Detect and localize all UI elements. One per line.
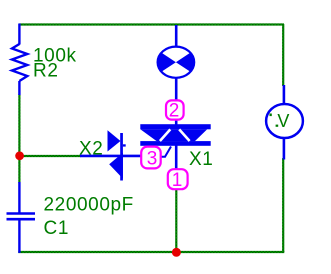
triac white slit left	[160, 129, 170, 141]
wire branch to X2 (node A)	[19, 155, 81, 157]
svg-text:1: 1	[172, 170, 183, 191]
pin 3 box	[141, 147, 161, 169]
wire triac pin1 to bottom	[175, 189, 177, 252]
wire top	[19, 23, 284, 25]
svg-text:3: 3	[147, 149, 158, 170]
diac X2 bar	[120, 133, 123, 181]
triac X1 body	[140, 124, 210, 146]
svg-text:V: V	[277, 111, 289, 131]
svg-text:X1: X1	[189, 149, 213, 170]
wire right upper	[282, 24, 284, 86]
lamp body	[158, 47, 195, 78]
svg-text:2: 2	[169, 100, 180, 121]
lamp: top lead	[175, 25, 178, 47]
svg-text:C1: C1	[44, 218, 70, 239]
voltmeter bottom lead	[283, 136, 286, 160]
wire bottom	[18, 251, 284, 253]
triac gate wire	[159, 147, 171, 157]
lamp right sector	[176, 53, 194, 72]
resistor R2	[12, 24, 27, 96]
svg-text:X2: X2	[79, 139, 103, 160]
pin 2 box	[166, 100, 184, 119]
voltmeter top lead	[283, 85, 286, 106]
voltmeter body	[266, 104, 303, 138]
diac X2 top triangle	[108, 130, 121, 151]
triac X1 top lead from pin2	[175, 120, 178, 125]
triac X1 bottom lead to pin1	[175, 146, 178, 170]
pin 1 box	[168, 169, 188, 189]
junction dot left	[15, 151, 24, 160]
diac X2 nub	[123, 144, 126, 146]
wire left upper (node R2 bottom to junction)	[18, 94, 20, 183]
diac X2 horizontal lead	[80, 155, 142, 158]
junction dot bottom	[172, 248, 181, 257]
triac white slit right	[179, 129, 189, 141]
capacitor C1	[7, 182, 36, 253]
wire right lower	[282, 158, 284, 252]
svg-text:220000pF: 220000pF	[44, 194, 134, 215]
lamp left sector	[158, 53, 176, 72]
svg-text:R2: R2	[33, 61, 59, 82]
diac X2 bottom triangle	[109, 153, 123, 179]
voltmeter tick	[270, 114, 272, 117]
lamp bottom lead	[175, 78, 178, 101]
